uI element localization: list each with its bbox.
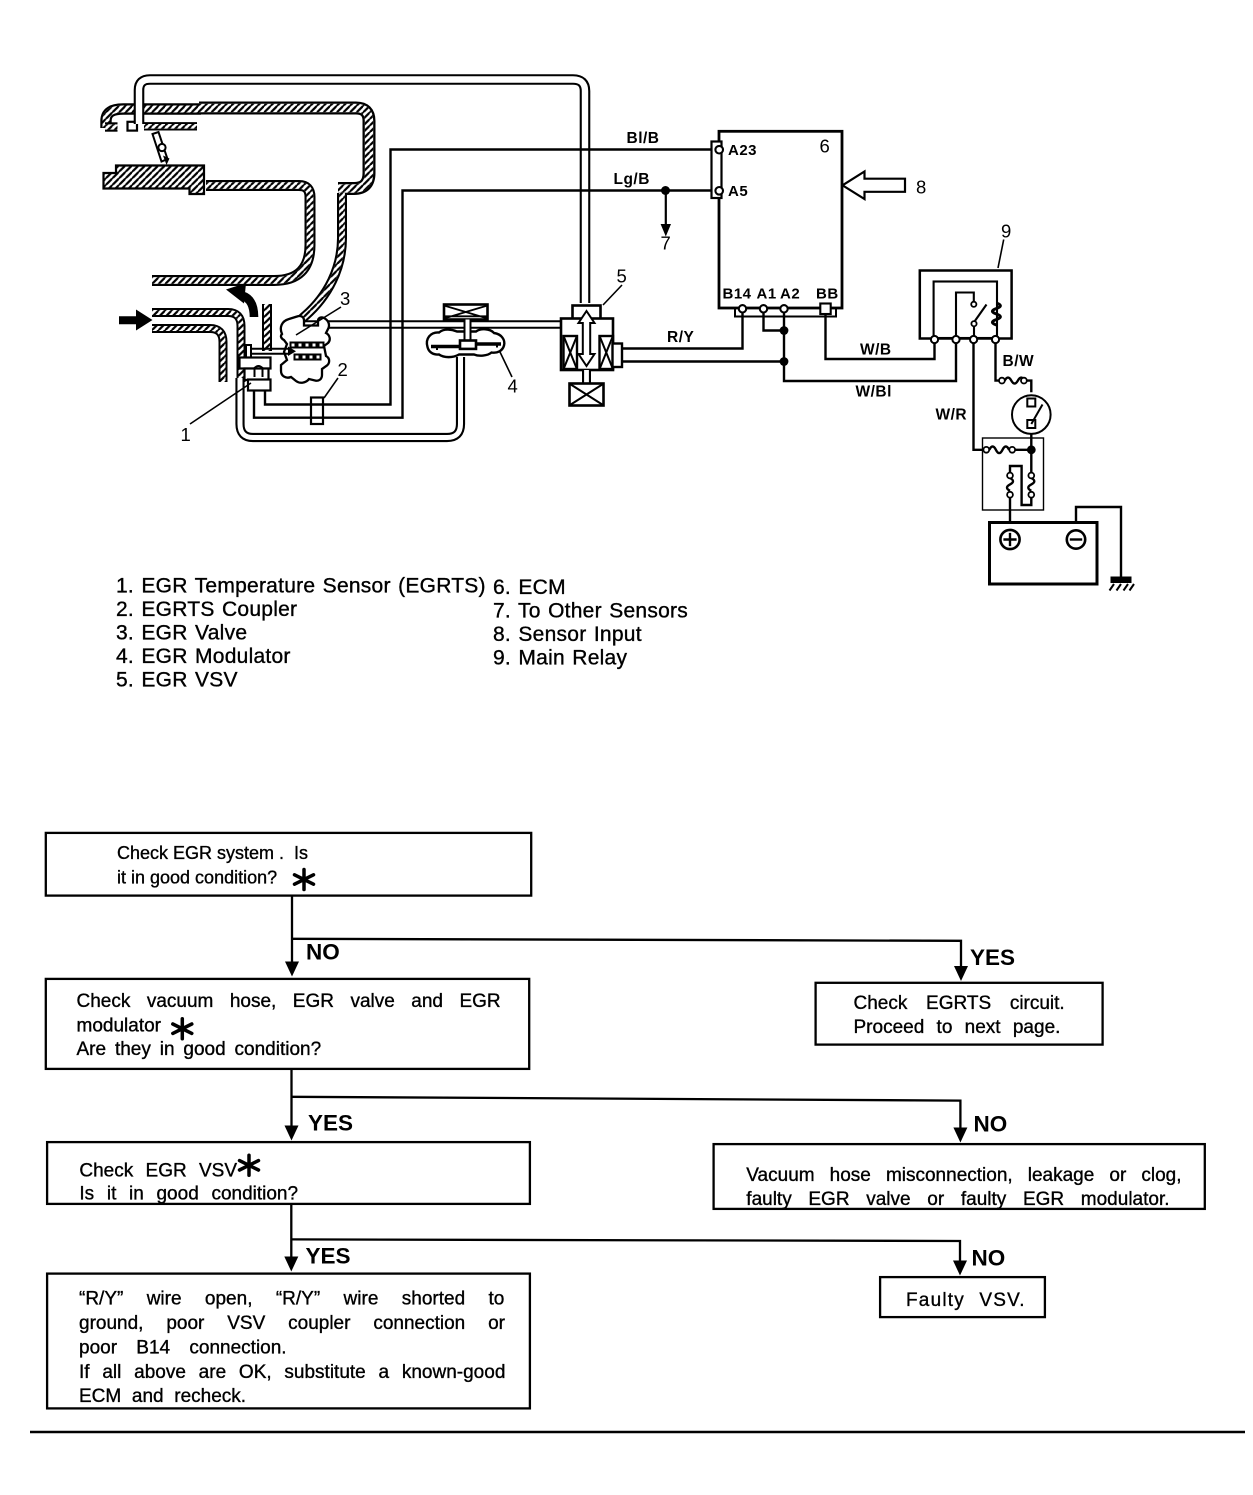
svg-text:“R/Y” wire open, “R/Y” wire sh: “R/Y” wire open, “R/Y” wire shorted to (79, 1289, 504, 1310)
svg-text:faulty EGR valve or faulty EGR: faulty EGR valve or faulty EGR modulator… (746, 1189, 1169, 1210)
svg-text:poor B14 connection.: poor B14 connection. (79, 1338, 287, 1359)
svg-text:8: 8 (916, 177, 926, 198)
svg-text:A23: A23 (728, 142, 757, 159)
svg-text:3: 3 (340, 288, 350, 309)
svg-text:2. EGRTS Coupler: 2. EGRTS Coupler (116, 598, 297, 621)
svg-text:9: 9 (1001, 221, 1011, 242)
svg-text:Check EGR VSV: Check EGR VSV (79, 1161, 237, 1182)
svg-text:ground, poor VSV coupler conne: ground, poor VSV coupler connection or (79, 1313, 506, 1334)
svg-text:1. EGR Temperature Sensor (EGR: 1. EGR Temperature Sensor (EGRTS) (116, 575, 486, 598)
svg-text:A1: A1 (757, 286, 777, 303)
svg-text:YES: YES (970, 945, 1015, 970)
svg-text:R/Y: R/Y (667, 329, 695, 346)
svg-text:ECM and recheck.: ECM and recheck. (79, 1386, 246, 1407)
svg-text:2: 2 (338, 359, 348, 380)
svg-text:Bl/B: Bl/B (627, 130, 660, 147)
svg-text:3. EGR Valve: 3. EGR Valve (116, 622, 247, 645)
svg-text:Check EGRTS circuit.: Check EGRTS circuit. (854, 993, 1065, 1014)
svg-text:W/Bl: W/Bl (856, 384, 892, 401)
svg-text:YES: YES (308, 1111, 353, 1136)
svg-text:7: 7 (661, 233, 671, 254)
svg-text:modulator: modulator (77, 1016, 162, 1037)
svg-text:it in good condition?: it in good condition? (117, 868, 277, 888)
svg-text:Lg/B: Lg/B (614, 171, 650, 188)
svg-text:W/R: W/R (936, 407, 968, 424)
svg-text:A2: A2 (780, 286, 800, 303)
svg-text:Vacuum hose misconnection, lea: Vacuum hose misconnection, leakage or cl… (746, 1165, 1181, 1186)
svg-text:6. ECM: 6. ECM (493, 576, 566, 599)
svg-text:9. Main Relay: 9. Main Relay (493, 647, 627, 670)
svg-text:4: 4 (508, 376, 518, 397)
svg-text:B/W: B/W (1003, 353, 1035, 370)
svg-text:8. Sensor Input: 8. Sensor Input (493, 623, 642, 646)
svg-text:NO: NO (972, 1245, 1006, 1270)
svg-text:NO: NO (974, 1112, 1008, 1137)
svg-text:BB: BB (816, 286, 839, 303)
svg-text:4. EGR Modulator: 4. EGR Modulator (116, 645, 291, 668)
svg-text:NO: NO (306, 940, 340, 965)
svg-text:Check vacuum hose, EGR valve a: Check vacuum hose, EGR valve and EGR (77, 991, 501, 1012)
svg-text:YES: YES (306, 1244, 351, 1269)
svg-text:5: 5 (617, 266, 627, 287)
svg-text:Is it in good condition?: Is it in good condition? (79, 1184, 298, 1205)
svg-text:Are they in good condition?: Are they in good condition? (77, 1039, 322, 1060)
svg-text:6: 6 (820, 136, 830, 157)
svg-text:Check EGR system . Is: Check EGR system . Is (117, 843, 308, 863)
svg-text:7. To Other Sensors: 7. To Other Sensors (493, 600, 688, 623)
svg-text:A5: A5 (728, 183, 748, 200)
svg-text:1: 1 (181, 424, 191, 445)
svg-text:B14: B14 (723, 286, 752, 303)
svg-text:Proceed to next page.: Proceed to next page. (854, 1017, 1061, 1038)
svg-text:If all above are OK, substitut: If all above are OK, substitute a known-… (79, 1362, 505, 1383)
svg-text:Faulty VSV.: Faulty VSV. (906, 1290, 1026, 1311)
svg-text:5. EGR VSV: 5. EGR VSV (116, 669, 238, 692)
svg-text:W/B: W/B (860, 342, 892, 359)
